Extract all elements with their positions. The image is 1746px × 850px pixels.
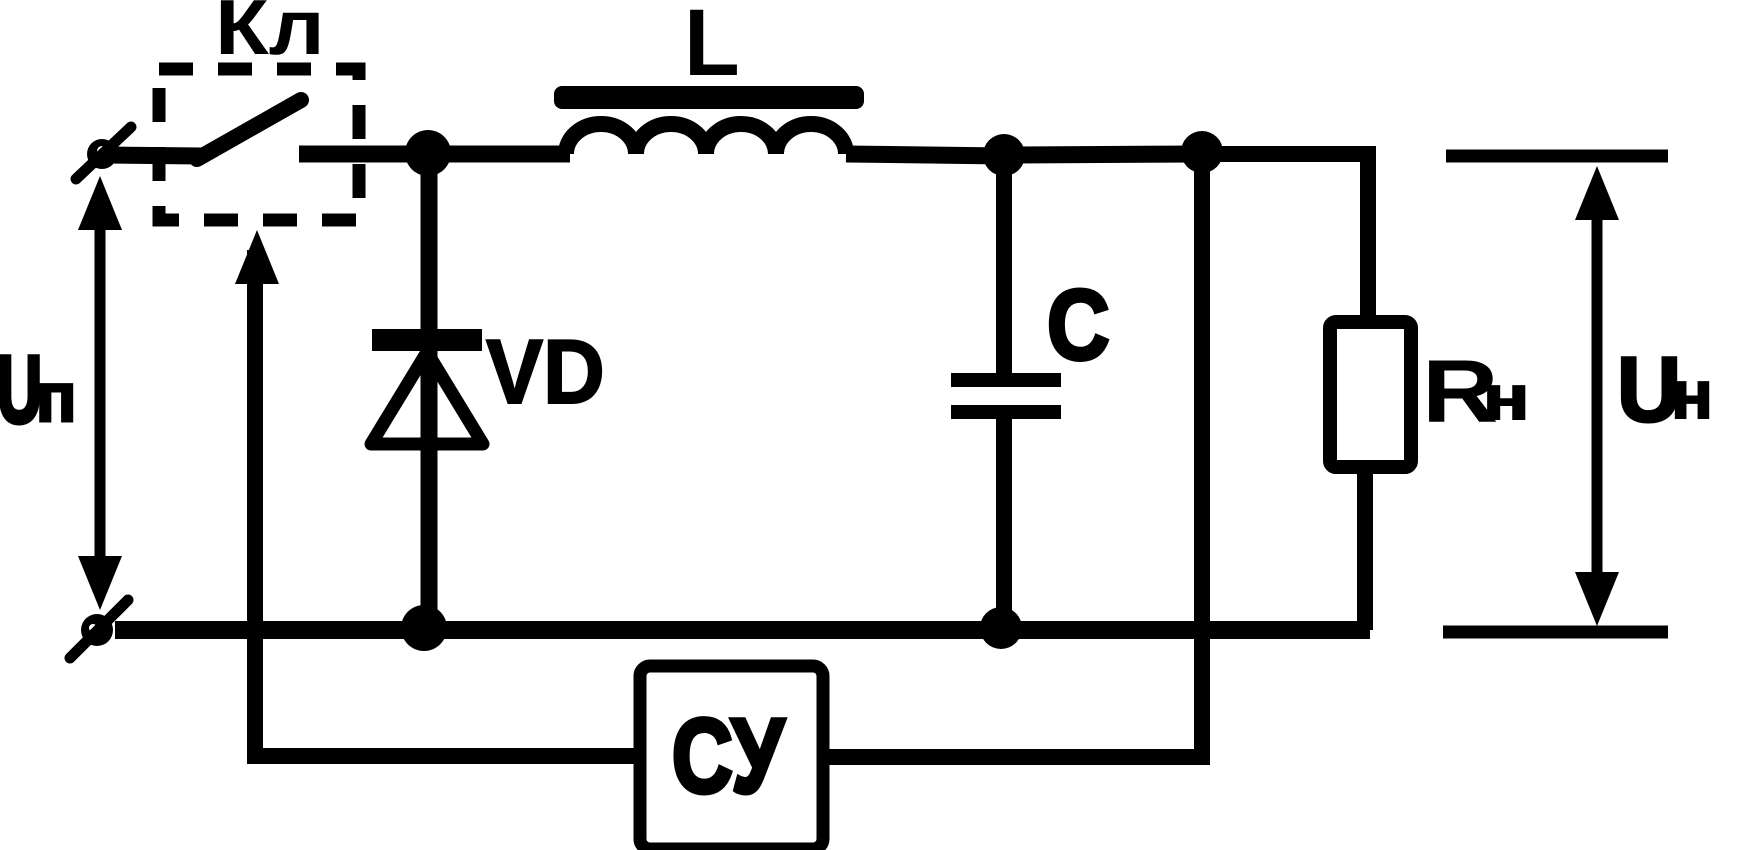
node E [980, 607, 1022, 649]
svg-text:н: н [1483, 363, 1529, 432]
inductor L [566, 124, 846, 154]
resistor Rн [1330, 322, 1411, 630]
inductor core bar [554, 86, 864, 109]
svg-text:VD: VD [486, 321, 605, 423]
node A [405, 130, 451, 176]
node D [401, 605, 447, 651]
feedback wire node C to control unit [823, 152, 1202, 757]
bottom bus wire [115, 621, 1370, 639]
dimension arrow Uп [78, 176, 122, 610]
Uн dimension top line [1446, 150, 1668, 163]
wire inductor to node B [846, 154, 1006, 156]
node B [983, 134, 1025, 176]
node C [1181, 131, 1223, 173]
wire switch to node A [299, 146, 430, 163]
svg-text:н: н [1671, 357, 1713, 433]
wire node C to load corner [1202, 154, 1368, 326]
input terminal plus [76, 127, 131, 179]
svg-text:L: L [684, 0, 740, 95]
dimension arrow Uн [1575, 166, 1619, 626]
capacitor C [951, 155, 1061, 630]
Uн dimension bottom line [1443, 626, 1668, 639]
wire node A to inductor [428, 146, 570, 163]
wire input to switch [108, 155, 202, 156]
control wire СУ to switch [255, 250, 640, 756]
svg-text:Кл: Кл [215, 0, 325, 71]
svg-text:СУ: СУ [672, 698, 785, 815]
diode VD [371, 153, 483, 628]
svg-text:C: C [1047, 270, 1110, 381]
svg-text:п: п [36, 359, 76, 436]
input terminal minus [70, 600, 128, 658]
control arrowhead [235, 230, 279, 284]
switch blade [197, 100, 301, 159]
switch Кл dashed box [159, 69, 359, 220]
wire node B to node C [1004, 154, 1204, 155]
control unit СУ box [640, 666, 823, 849]
